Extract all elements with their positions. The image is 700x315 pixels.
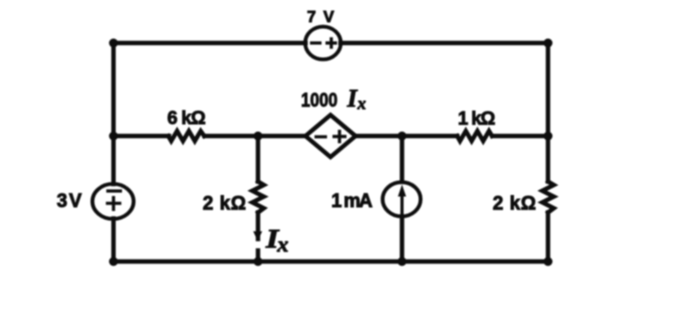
wire branch A below resistor to arrow tip <box>256 213 260 240</box>
svg-text:1 mA: 1 mA <box>331 191 373 212</box>
svg-text:x: x <box>357 94 367 113</box>
svg-text:I: I <box>346 86 358 113</box>
wire top left segment <box>114 41 306 45</box>
wire middle: diamond to 1k <box>356 134 458 138</box>
Ix arrowhead <box>253 231 262 241</box>
node dot top-left <box>109 39 118 48</box>
svg-text:1 kΩ: 1 kΩ <box>458 107 496 128</box>
wire branch B lower <box>400 217 404 262</box>
wire left rail lower <box>111 219 115 262</box>
7V minus sign <box>310 41 322 44</box>
wire right rail lower <box>546 213 550 262</box>
svg-text:2 kΩ: 2 kΩ <box>493 194 536 215</box>
wire left rail upper <box>111 43 115 184</box>
resistor 6 kOhm zigzag <box>168 131 204 141</box>
wire middle: 6k to diamond <box>205 134 306 138</box>
dependent source diamond <box>306 115 356 157</box>
wire branch B upper <box>400 136 404 181</box>
svg-text:2 kΩ: 2 kΩ <box>203 194 246 215</box>
svg-text:7 V: 7 V <box>307 9 334 26</box>
node dot mid B <box>398 132 407 141</box>
resistor 2 kOhm middle zigzag <box>252 182 263 213</box>
diamond minus sign <box>315 135 328 138</box>
svg-text:x: x <box>276 231 288 256</box>
current source 1mA circle <box>383 182 421 216</box>
wire middle: 1k to right rail <box>493 134 549 138</box>
wire branch A upper <box>256 136 260 182</box>
1mA arrowhead <box>398 185 406 197</box>
wire branch A lower stub <box>256 251 260 262</box>
wire right rail upper <box>546 43 550 182</box>
3V plus sign <box>106 196 121 211</box>
1mA arrow shaft <box>400 192 403 216</box>
7V plus sign <box>326 37 338 49</box>
node dot mid-right <box>544 132 553 141</box>
wire bottom <box>114 259 549 263</box>
voltage source 7V circle <box>305 27 341 60</box>
node dot mid-left <box>109 132 118 141</box>
node dot bottom B <box>398 257 407 266</box>
resistor 2 kOhm right zigzag <box>542 182 554 213</box>
diamond plus sign <box>333 130 347 144</box>
node dot bottom-right <box>544 257 553 266</box>
node dot top-right <box>544 39 553 48</box>
node dot bottom A <box>254 257 263 266</box>
resistor 1 kOhm zigzag <box>457 131 492 141</box>
wire middle: left rail to 6k <box>114 134 170 138</box>
svg-text:1000: 1000 <box>301 89 338 111</box>
voltage source 3V circle <box>92 184 133 219</box>
svg-text:3 V: 3 V <box>57 191 82 212</box>
wire top right segment <box>341 41 549 45</box>
3V minus sign <box>106 189 122 192</box>
node dot mid A <box>254 132 263 141</box>
svg-text:6 kΩ: 6 kΩ <box>167 107 206 128</box>
node dot bottom-left <box>109 257 118 266</box>
